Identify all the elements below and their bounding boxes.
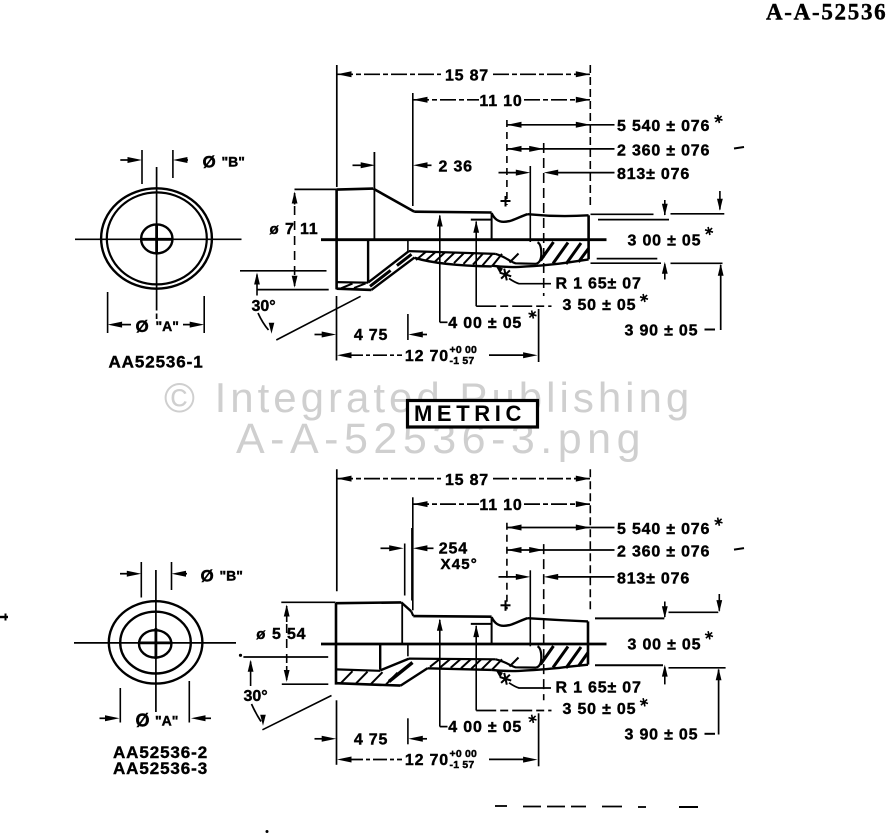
svg-text:3 90 ± 05: 3 90 ± 05	[625, 727, 699, 744]
svg-text:5 54: 5 54	[272, 626, 306, 643]
top side view: diameter 7 11 dimension	[257, 189, 337, 289]
svg-text:15 87: 15 87	[445, 472, 489, 489]
bottom side view: dimension 4 00 plus-minus 05 with leader	[437, 619, 537, 736]
top front view: crosshair centrelines	[75, 167, 242, 319]
top side view: dimension 11 10 with extension lines	[413, 93, 591, 206]
bottom side view: dimension 15 87 with extension lines	[337, 469, 591, 613]
svg-text:3 50 ± 05: 3 50 ± 05	[563, 701, 637, 718]
footer scan dashes	[495, 806, 698, 807]
svg-text:3 50 ± 05: 3 50 ± 05	[563, 297, 637, 314]
svg-text:4 75: 4 75	[354, 327, 388, 344]
bottom front view: counterbore circle	[120, 612, 191, 674]
svg-text:"A": "A"	[156, 318, 179, 334]
top side view: dimension 15 87 with extension lines	[337, 65, 591, 209]
bottom side view: part outline upper half	[336, 602, 588, 684]
svg-text:"B": "B"	[220, 568, 243, 584]
top side view: solid end section hatching	[510, 242, 589, 264]
bottom side view: dimension 3 00 plus-minus 05 (right side)	[595, 594, 722, 684]
svg-text:2 360 ± 076: 2 360 ± 076	[617, 543, 710, 560]
svg-text:15 87: 15 87	[445, 68, 489, 85]
svg-text:2 360 ± 076: 2 360 ± 076	[617, 142, 710, 159]
svg-text:3 00 ± 05: 3 00 ± 05	[628, 637, 702, 654]
bottom front view: diameter B dimension	[120, 562, 243, 598]
svg-text:Ø: Ø	[201, 567, 214, 586]
svg-text:X45°: X45°	[441, 556, 479, 573]
svg-text:30°: 30°	[252, 298, 276, 315]
svg-text:ø: ø	[270, 221, 280, 238]
bottom margin scan dot	[266, 830, 269, 833]
svg-text:-1 57: -1 57	[450, 759, 475, 771]
top side view: dimension 813 plus-minus 076 with leader	[499, 166, 691, 242]
bottom side view: groove centre mark	[501, 600, 511, 611]
top side view: 30 degree flare angle callout	[240, 271, 361, 340]
bottom front view: crosshair centrelines	[74, 570, 236, 712]
top side view: dimension 4 00 plus-minus 05 with leader	[437, 215, 537, 332]
svg-text:2 36: 2 36	[439, 159, 473, 176]
bottom side view: chamfer dimension 254 X 45	[381, 528, 479, 601]
svg-text:3 00 ± 05: 3 00 ± 05	[628, 232, 702, 249]
svg-text:4 00 ± 05: 4 00 ± 05	[448, 719, 522, 736]
top side view: side view centreline	[321, 238, 607, 241]
svg-text:R 1 65± 07: R 1 65± 07	[556, 275, 642, 292]
top front view: centre hole circle	[141, 224, 172, 253]
svg-text:AA52536-1: AA52536-1	[109, 352, 204, 371]
bottom side view: dimension 2 360 plus-minus 076 with leader	[507, 543, 744, 700]
svg-text:4 00 ± 05: 4 00 ± 05	[448, 315, 522, 332]
svg-text:Ø: Ø	[136, 317, 149, 336]
bottom side view: dimension 3 50 plus-minus 05 with leader	[473, 625, 648, 718]
bottom side view: dimension 813 plus-minus 076 with leader	[499, 570, 691, 646]
top side view: dimension 12 70 with tolerance +0 00 -1 57	[337, 296, 539, 367]
top side view: bore end radius and outer contour	[492, 242, 589, 267]
svg-text:AA52536-3: AA52536-3	[113, 759, 208, 778]
svg-text:-1 57: -1 57	[450, 355, 475, 367]
top side view: dimension 5 540 plus-minus 076 with leader	[507, 115, 723, 205]
top front view: outer circle	[101, 188, 212, 288]
bottom side view: groove root line	[471, 623, 492, 625]
top side view: part outline upper half	[337, 152, 589, 289]
top side view: part outline lower half with section hatching	[337, 240, 496, 290]
top side view: sleeve wall hatching	[416, 252, 502, 267]
top front view: rim circle	[107, 192, 207, 284]
bottom side view: solid end section hatching	[510, 646, 589, 668]
bottom side view: side view centreline	[321, 643, 607, 646]
bottom side view: diameter 5 54 dimension	[256, 602, 335, 684]
bottom side view: dimension 12 70 with tolerance +0 00 -1 57	[337, 700, 539, 771]
svg-text:4 75: 4 75	[354, 732, 388, 749]
svg-text:3 90 ± 05: 3 90 ± 05	[625, 322, 699, 339]
bottom side view: dimension 3 90 plus-minus 05 (right side)	[625, 668, 726, 744]
svg-text:7 11: 7 11	[285, 221, 318, 238]
svg-text:12 70: 12 70	[405, 348, 449, 365]
left margin scan mark	[0, 614, 8, 621]
top side view: dimension 2 360 plus-minus 076 with leader	[507, 142, 744, 296]
svg-text:METRIC: METRIC	[414, 401, 526, 426]
bottom side view: part outline lower half with section hatching	[336, 643, 496, 685]
top side view: dimension 3 00 plus-minus 05 (right side)	[591, 191, 725, 280]
bottom side view: dimension 4 75	[315, 644, 428, 748]
svg-text:813± 076: 813± 076	[617, 571, 690, 588]
top side view: dimension 3 50 plus-minus 05 with leader	[473, 221, 648, 314]
top side view: radius callout R 1 65 plus-minus 07	[496, 266, 642, 293]
bottom side view: dimension 11 10 with extension lines	[413, 497, 591, 610]
svg-text:"A": "A"	[155, 712, 178, 728]
svg-text:12 70: 12 70	[405, 752, 449, 769]
top front view: diameter A dimension	[108, 292, 205, 336]
svg-text:5 540 ± 076: 5 540 ± 076	[617, 521, 710, 538]
bottom front view: outer circle	[109, 601, 203, 683]
svg-text:ø: ø	[256, 626, 266, 643]
bottom front view: centre hole circle	[139, 630, 171, 657]
svg-text:254: 254	[439, 541, 468, 558]
top side view: dimension 3 90 plus-minus 05 (right side)	[625, 263, 724, 339]
svg-text:A-A-52536: A-A-52536	[766, 0, 886, 25]
bottom side view: sleeve wall hatching	[430, 659, 502, 670]
svg-text:11 10: 11 10	[479, 93, 522, 110]
svg-text:5 540 ± 076: 5 540 ± 076	[617, 118, 710, 135]
svg-text:813± 076: 813± 076	[617, 166, 690, 183]
top side view: groove centre mark	[501, 196, 511, 207]
top side view: dimension 4 75	[315, 240, 428, 344]
bottom side view: bore end radius and outer contour	[492, 646, 588, 671]
bottom side view: radius callout R 1 65 plus-minus 07	[496, 670, 642, 697]
bottom side view: dimension 5 540 plus-minus 076 with leader	[507, 518, 723, 610]
svg-text:"B": "B"	[222, 154, 245, 170]
METRIC designation box	[408, 401, 538, 428]
svg-text:Ø: Ø	[203, 153, 216, 172]
bottom front view: diameter A dimension	[100, 681, 212, 730]
top side view: dimension 2 36	[353, 159, 473, 176]
svg-text:Ø: Ø	[136, 710, 150, 730]
bottom side view: 30 degree flare angle callout	[239, 654, 332, 730]
svg-text:11 10: 11 10	[479, 497, 522, 514]
top side view: groove root line	[471, 219, 492, 221]
svg-text:R 1 65± 07: R 1 65± 07	[556, 680, 642, 697]
svg-text:30°: 30°	[244, 688, 268, 705]
top front view: diameter B dimension	[120, 150, 245, 184]
